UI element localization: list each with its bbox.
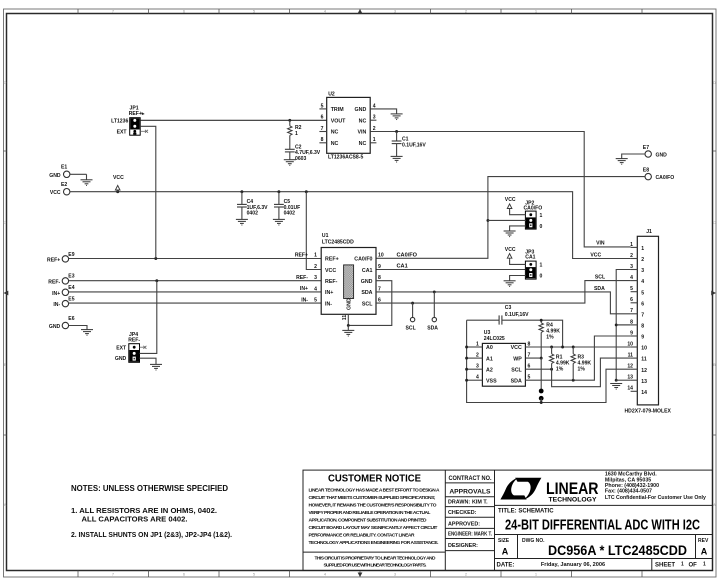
node C3 vcc drop junction [561,346,564,349]
svg-text:2: 2 [641,257,644,263]
svg-text:CA0/F0: CA0/F0 [354,257,372,263]
wire WP to header dots [540,358,542,391]
terminal E2 [50,182,70,196]
svg-text:A0: A0 [486,345,493,351]
svg-text:REF-: REF- [48,279,60,285]
svg-text:2: 2 [476,353,479,359]
pin 8 U2 NC [319,142,326,144]
terminal E8 [643,168,674,182]
ground E1 [81,180,93,186]
svg-text:VERIFY PROPER AND RELIABLE OPE: VERIFY PROPER AND RELIABLE OPERATION IN … [309,510,431,516]
wire E6 to ground [69,326,87,330]
svg-text:CA1: CA1 [525,255,535,261]
svg-text:GND: GND [49,324,61,330]
svg-text:Fax: (408)434-0507: Fax: (408)434-0507 [605,489,652,495]
border zone tick marks sides [4,151,717,435]
svg-text:REF-: REF- [128,337,140,343]
svg-text:8: 8 [641,324,644,330]
wire JP1 pin2 to REF+ [140,126,156,258]
svg-text:SDA: SDA [594,286,605,292]
svg-text:VCC: VCC [505,197,516,203]
svg-text:EXT: EXT [116,346,127,352]
wire SDA net U1 pin7 to J1 pin7 [376,292,631,314]
ground JP4 [150,364,162,370]
svg-text:3: 3 [476,364,479,370]
svg-text:5: 5 [321,103,324,109]
svg-text:24LC025: 24LC025 [484,336,505,342]
pin 13 J1 [631,379,638,381]
svg-text:14: 14 [641,390,647,396]
wire VCC net U3 pin8 to J1 pin10 [525,346,630,348]
svg-text:GND: GND [115,356,127,362]
svg-text:13: 13 [627,375,633,381]
resistor R4 [539,323,560,358]
svg-text:NC: NC [359,141,367,147]
svg-text:REF+: REF+ [47,257,60,263]
svg-text:E5: E5 [68,297,74,303]
wire REF+ net E9 to U1 pin1 [69,258,322,260]
svg-text:J1: J1 [646,229,652,235]
resistor R3 [571,346,591,381]
svg-text:A: A [701,547,708,557]
pin 7 J1 [631,313,638,315]
ground U2 [391,114,403,120]
wire REF- net E3 to U1 pin3 [69,280,322,282]
wire eeprom SCL jog to J1 pin11 [552,358,631,387]
ground C2 [284,160,296,166]
U1 internal GND pad [344,265,354,310]
svg-text:12: 12 [627,364,633,370]
ground U1 [342,330,354,336]
svg-text:GND: GND [355,107,367,113]
svg-text:LTC Confidential-For Customer: LTC Confidential-For Customer Use Only [605,495,706,501]
node SCL test point junction [411,302,414,305]
ground JP2 [504,231,516,237]
node REF- JP4 junction [155,279,158,282]
svg-text:3: 3 [373,115,376,121]
svg-text:8: 8 [630,319,633,325]
svg-text:5: 5 [641,290,644,296]
border zone tick marks bottom [78,571,642,578]
svg-text:0402: 0402 [284,211,295,217]
svg-text:REF+: REF+ [129,111,142,117]
svg-text:DATE:: DATE: [497,562,515,568]
pin 3 U2 NC [370,119,376,121]
svg-text:E6: E6 [68,316,74,322]
pin 14 J1 [631,390,638,392]
svg-text:1: 1 [540,263,543,269]
svg-text:1: 1 [373,137,376,143]
svg-text:IN+: IN+ [325,290,333,296]
ground J1 [610,384,622,390]
node gnd rail junction [540,401,543,404]
ADC U1 LTC2485CDD [321,233,376,314]
node U1 VCC drop junction [305,190,308,193]
svg-text:CIRCUIT THAT MEETS CUSTOMER-SU: CIRCUIT THAT MEETS CUSTOMER-SUPPLIED SPE… [309,495,436,501]
svg-text:SCL: SCL [362,301,373,307]
svg-text:NC: NC [359,118,367,124]
svg-text:B: B [713,362,716,367]
svg-text:CA1: CA1 [397,264,408,270]
svg-text:0402: 0402 [247,211,258,217]
svg-text:A1: A1 [486,356,493,362]
wire JP3 pin1 to VCC [510,259,526,264]
svg-text:11: 11 [641,357,647,363]
svg-text:HOWEVER, IT REMAINS THE CUSTOM: HOWEVER, IT REMAINS THE CUSTOMER'S RESPO… [309,503,437,509]
svg-text:TECHNOLOGY APPLICATIONS ENGINE: TECHNOLOGY APPLICATIONS ENGINEERING FOR … [309,540,440,546]
svg-text:REF-: REF- [296,275,308,281]
node CA0/FO JP2 junction [486,219,489,222]
svg-text:IN-: IN- [325,301,332,307]
svg-text:IN+: IN+ [52,291,60,297]
svg-text:D: D [713,80,716,85]
svg-text:E8: E8 [643,168,649,174]
svg-text:LINEAR TECHNOLOGY HAS MADE A B: LINEAR TECHNOLOGY HAS MADE A BEST EFFORT… [309,488,441,494]
svg-text:VSS: VSS [486,379,497,385]
svg-text:0: 0 [540,274,543,280]
power flag VCC JP3 [507,254,512,260]
wire E1 to ground [70,173,87,175]
node WP header pin A [539,389,544,394]
svg-text:6: 6 [641,301,644,307]
terminal E1 [49,165,70,179]
svg-text:U3: U3 [484,330,491,336]
svg-text:14: 14 [627,386,633,392]
customer notice body [309,488,441,569]
wire J1 pin8 stub [616,324,630,326]
svg-text:DRAWN:: DRAWN: [448,500,470,506]
no-connect arrow JP4 pin1 [140,346,147,349]
svg-text:3: 3 [641,268,644,274]
svg-text:E7: E7 [643,145,649,151]
svg-text:E4: E4 [68,285,74,291]
svg-text:SDA: SDA [361,290,372,296]
wire header pin B to gnd rail [540,398,542,402]
svg-text:VCC: VCC [511,345,522,351]
power flag VCC [115,185,120,191]
pin 4 U3 VSS [467,379,483,381]
svg-text:CHECKED:: CHECKED: [448,510,477,516]
svg-text:EXT: EXT [117,130,128,136]
terminal SDA [433,292,435,318]
svg-text:NC: NC [331,130,339,136]
ground E6 [81,330,93,336]
node SDA test point junction [433,290,436,293]
terminal E7 [643,145,667,159]
wire U2 GND to ground [370,109,396,114]
svg-text:3: 3 [630,264,633,270]
wire CA0/FO net E8 to U1 pin10 [376,177,645,259]
wire CA1 net U1 pin9 to JP3 pin2 [376,269,525,271]
svg-text:VCC: VCC [590,252,601,258]
jumper JP4 REF- select [115,332,141,362]
svg-text:24-BIT DIFFERENTIAL ADC WITH I: 24-BIT DIFFERENTIAL ADC WITH I2C [505,518,700,534]
svg-text:1: 1 [540,213,543,219]
svg-text:REF+: REF+ [295,253,308,259]
svg-text:11: 11 [628,353,634,359]
svg-text:SCL: SCL [406,325,416,331]
svg-text:4: 4 [476,375,479,381]
svg-text:ENGINEER: MARK T.: ENGINEER: MARK T. [448,532,492,538]
svg-text:REV: REV [698,538,709,544]
address block [605,472,706,501]
wire JP1 pin1 to LT1236 VOUT [140,119,327,121]
svg-text:VCC: VCC [505,247,516,253]
pin 4 J1 [631,280,638,282]
svg-text:KIM T.: KIM T. [472,500,488,506]
svg-text:C: C [4,220,7,225]
node GND J1 pin8 junction [615,323,618,326]
no-connect arrow JP1 pin3 [140,130,148,133]
wire U3 SCL to R1 bottom [525,368,551,370]
svg-text:12: 12 [641,368,647,374]
node VCC flag junction [116,190,119,193]
svg-text:CIRCUIT BOARD LAYOUT MAY SIGNI: CIRCUIT BOARD LAYOUT MAY SIGNIFICANTLY A… [309,525,438,531]
svg-text:GND: GND [361,279,373,285]
jumper JP3 CA1 select [505,247,543,280]
wire pin11 to ground [347,325,349,330]
svg-text:6: 6 [321,115,324,121]
ground C5 [273,219,285,225]
wire GND net J1 pin3 riser [616,270,630,381]
wire JP2 pin2 to CA0/FO [488,219,526,221]
svg-text:IN-: IN- [301,297,308,303]
capacitor C1 [392,130,427,156]
svg-text:0603: 0603 [295,156,306,162]
svg-text:1%: 1% [546,335,554,341]
svg-text:DC956A * LTC2485CDD: DC956A * LTC2485CDD [548,543,687,559]
ground C4 [236,219,248,225]
svg-text:7: 7 [528,353,531,359]
svg-text:NC: NC [331,141,339,147]
svg-text:E9: E9 [68,252,74,258]
svg-text:CA0/FO: CA0/FO [397,253,418,259]
pin 2 U3 A1 [467,357,483,359]
svg-text:4: 4 [630,275,633,281]
terminal E3 [48,274,74,286]
svg-text:TRIM: TRIM [331,107,345,113]
approvals column [448,475,492,549]
svg-text:VCC: VCC [325,268,336,274]
svg-text:D: D [4,80,7,85]
svg-text:3: 3 [314,275,317,281]
svg-text:2. INSTALL SHUNTS ON JP1 (2&3): 2. INSTALL SHUNTS ON JP1 (2&3), JP2-JP4 … [71,530,232,539]
pin 11 U1 exposed pad [347,314,349,325]
wire VCC net E2 to J1 pin2 [70,192,631,259]
svg-text:GND: GND [49,173,61,179]
pin 8 J1 [631,324,638,326]
resistor R2 [288,119,302,149]
node WP header pin B [539,396,544,401]
svg-text:SUPPLIED FOR USE WITH LINEAR T: SUPPLIED FOR USE WITH LINEAR TECHNOLOGY … [324,563,428,569]
svg-text:1: 1 [681,562,684,568]
svg-text:LT1236ACS8-5: LT1236ACS8-5 [328,155,363,161]
node R4 top junction [540,319,543,322]
wire JP4 pin2 to REF- [140,281,157,354]
svg-text:7: 7 [321,126,324,132]
wire C3 right to VCC drop [502,320,563,347]
pin 5 U2 TRIM [319,108,326,110]
svg-text:0: 0 [540,224,543,230]
svg-text:IN-: IN- [53,302,60,308]
svg-text:SIZE: SIZE [498,538,510,544]
resistor R1 [549,346,569,373]
svg-text:B: B [4,362,7,367]
capacitor C4 [237,190,268,219]
wire SDA eeprom net U3 pin5 to J1 pin9 [525,336,630,380]
node REF+ JP1 junction [154,257,157,260]
border zone tick marks top [78,9,642,14]
svg-text:ALL CAPACITORS ARE 0402.: ALL CAPACITORS ARE 0402. [82,515,188,524]
node GND J1 pin13 junction [615,379,618,382]
connector J1 HD2X7-079-MOLEX [625,229,672,415]
svg-text:A2: A2 [486,368,493,374]
wire JP4 pin3 to ground [140,358,157,364]
svg-text:1: 1 [314,253,317,259]
svg-text:E2: E2 [61,182,67,188]
pin 5 J1 [631,291,638,293]
wire IN+ net E4 to U1 pin4 [69,291,322,293]
node SCL pullup junction [550,368,553,371]
svg-text:2: 2 [630,253,633,259]
svg-text:CA1: CA1 [362,268,373,274]
wire SCL net U1 pin6 to J1 pin4 [376,281,631,304]
svg-text:2: 2 [314,264,317,270]
svg-text:VIN: VIN [596,241,605,247]
svg-text:10: 10 [641,346,647,352]
pin 9 J1 [631,335,638,337]
capacitor C2 [285,144,321,161]
svg-text:DESIGNER:: DESIGNER: [448,543,478,549]
wire VIN net U2 to J1 pin1 [370,132,630,247]
svg-text:VCC: VCC [113,175,124,181]
pin 7 U2 NC [319,131,326,133]
svg-text:10: 10 [378,253,384,259]
jumper JP2 CA0/FO select [505,197,543,230]
pin 3 U3 A2 [467,368,483,370]
terminal E5 [53,297,74,309]
svg-text:HD2X7-079-MOLEX: HD2X7-079-MOLEX [625,409,672,415]
svg-text:C3: C3 [505,305,512,311]
terminal E6 [49,316,75,330]
svg-text:5: 5 [630,286,633,292]
ground C1 [391,156,403,162]
pin 3 J1 [631,269,638,271]
pin 1 U2 NC [370,142,376,144]
svg-text:1%: 1% [578,366,586,372]
svg-text:LTC2485CDD: LTC2485CDD [322,239,354,245]
svg-text:1: 1 [703,562,706,568]
node U1 pin11 junction [347,324,350,327]
wire gnd rail top to C3 left [467,319,500,321]
svg-text:E3: E3 [68,274,74,280]
svg-text:6: 6 [630,297,633,303]
svg-text:7: 7 [630,308,633,314]
svg-text:A: A [713,502,716,507]
svg-text:A: A [4,502,7,507]
svg-text:SDA: SDA [511,379,522,385]
svg-text:SHEET: SHEET [655,562,675,568]
wire U3 address pins to gnd rail [467,320,631,402]
svg-text:1: 1 [295,131,298,137]
svg-text:APPROVALS: APPROVALS [449,489,491,496]
terminal E9 [47,252,75,263]
pin 1 J1 [631,246,638,248]
svg-text:A: A [502,547,509,557]
svg-text:4: 4 [641,279,644,285]
pin 12 J1 [631,368,638,370]
wire JP2 pin3 to ground [510,226,526,231]
svg-text:9: 9 [641,335,644,341]
svg-text:9: 9 [378,264,381,270]
svg-text:1: 1 [641,246,644,252]
node SDA pullup junction [572,379,575,382]
ground JP3 [504,281,516,287]
wire J1 pin13 stub [616,379,630,381]
svg-text:THIS CIRCUIT IS PROPRIETARY TO: THIS CIRCUIT IS PROPRIETARY TO LINEAR TE… [315,556,437,562]
wire VCC to U1 pin2 [306,192,321,270]
svg-text:NOTES: UNLESS OTHERWISE SPECI: NOTES: UNLESS OTHERWISE SPECIFIED [71,484,228,493]
svg-text:REF-: REF- [325,279,338,285]
svg-text:1: 1 [476,341,479,347]
jumper JP1 REF+ select [111,106,145,136]
svg-text:VOUT: VOUT [331,118,346,124]
svg-text:U2: U2 [328,92,335,98]
svg-text:APPLICATION. COMPONENT SUBSTI: APPLICATION. COMPONENT SUBSTITUTION AND … [309,518,428,524]
svg-text:0.1UF,16V: 0.1UF,16V [505,312,529,318]
svg-text:CA0/FO: CA0/FO [656,175,675,181]
wire U3 WP pin7 stub [525,357,541,359]
svg-text:SCL: SCL [595,274,605,280]
terminal SCL [412,303,414,317]
svg-text:WP: WP [513,356,522,362]
svg-text:7: 7 [641,312,644,318]
svg-text:11: 11 [342,315,348,321]
svg-text:5: 5 [314,298,317,304]
terminal E4 [52,285,75,297]
svg-text:13: 13 [641,379,647,385]
svg-text:VIN: VIN [357,130,366,136]
wire JP2 pin1 to VCC [510,210,526,215]
pin 6 J1 [631,302,638,304]
svg-text:PERFORMANCE OR RELIABILITY. C: PERFORMANCE OR RELIABILITY. CONTACT LINE… [309,533,416,539]
node WP junction [540,357,543,360]
svg-text:CUSTOMER NOTICE: CUSTOMER NOTICE [328,474,421,485]
capacitor C3 [499,305,529,325]
wire U1 GND pin8 loop to pin11 [348,281,392,326]
svg-text:8: 8 [321,137,324,143]
wire E7 to ground [622,154,645,159]
svg-text:TITLE: SCHEMATIC: TITLE: SCHEMATIC [498,508,554,514]
svg-text:10: 10 [627,341,633,347]
svg-text:CONTRACT NO.: CONTRACT NO. [449,475,492,482]
svg-text:E1: E1 [61,165,67,171]
svg-text:0.1UF,16V: 0.1UF,16V [402,142,426,148]
power flag VCC JP2 [507,204,512,210]
svg-text:GND: GND [656,153,668,159]
svg-text:Friday, January 06, 2006: Friday, January 06, 2006 [541,562,605,568]
svg-text:9: 9 [630,330,633,336]
ground E7 [616,159,628,165]
svg-text:REF+: REF+ [325,257,339,263]
svg-text:LINEAR: LINEAR [546,480,599,498]
svg-text:U1: U1 [322,233,329,239]
svg-text:SDA: SDA [427,325,438,331]
svg-text:C: C [713,220,716,225]
wire JP3 pin3 to ground [510,276,526,281]
pin 2 J1 [631,258,638,260]
svg-text:OF: OF [689,562,698,568]
